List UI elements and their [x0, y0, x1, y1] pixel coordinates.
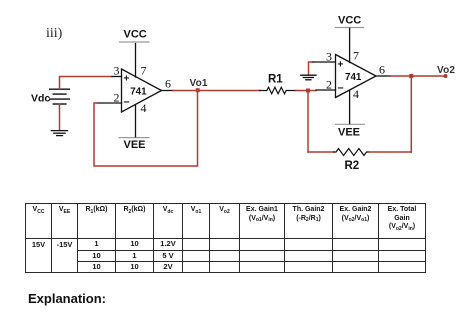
svg-text:741: 741 [345, 72, 362, 83]
junction node Vo2/R2 [409, 74, 413, 78]
svg-text:–: – [124, 96, 130, 108]
battery Vdc [50, 89, 70, 104]
svg-text:iii): iii) [46, 26, 63, 41]
wire R2 right lead [370, 151, 412, 153]
ground GND1 [51, 131, 67, 136]
wire output U2 to Vo2 [390, 75, 446, 77]
svg-text:3: 3 [326, 50, 332, 64]
svg-text:VEE: VEE [338, 127, 360, 139]
svg-text:Vo1: Vo1 [190, 78, 208, 89]
svg-text:VCC: VCC [338, 14, 361, 26]
junction node Vo1 [196, 88, 200, 92]
svg-text:2: 2 [326, 77, 332, 91]
wire battery- to ground [59, 104, 61, 130]
svg-text:741: 741 [130, 87, 147, 98]
svg-text:Vo2: Vo2 [437, 65, 455, 76]
op-amp U2 741 [313, 28, 390, 123]
pin 4 stem (VEE) [135, 105, 137, 137]
ground GND2 [301, 75, 316, 80]
junction node pin2 U2 [306, 89, 310, 93]
wire R1 to pin2 U2 [296, 90, 316, 92]
wire R2 left lead [308, 151, 334, 153]
pin 7 stem (VCC) [349, 28, 351, 62]
wire R2 up to output node [410, 76, 412, 152]
power VEE (U1) [119, 138, 149, 151]
wire pin3 U2 to ground [309, 62, 314, 75]
pin 3 stub [112, 76, 122, 78]
pin 6 output stub [376, 75, 390, 77]
svg-text:R1: R1 [268, 74, 283, 86]
svg-text:–: – [338, 82, 344, 94]
pin 7 stem (VCC) [135, 44, 137, 78]
svg-text:6: 6 [379, 63, 385, 77]
table of measurements [25, 203, 426, 273]
op-amp U1 741 [97, 44, 174, 137]
terminal dot Vo2 [444, 74, 448, 78]
svg-text:4: 4 [353, 87, 359, 101]
svg-text:+: + [124, 74, 130, 85]
svg-text:VCC: VCC [124, 29, 147, 41]
wire feedback U1 pin2 [94, 91, 198, 166]
pin 4 stem (VEE) [349, 90, 351, 124]
svg-text:R2: R2 [345, 160, 360, 172]
svg-text:3: 3 [114, 64, 120, 78]
svg-text:7: 7 [141, 64, 147, 78]
power VEE (U2) [336, 124, 365, 138]
pin 3 stub [313, 61, 336, 63]
pin 6 output stub [162, 90, 174, 92]
svg-text:+: + [338, 60, 344, 71]
wire pin2 U2 down to R2 [307, 91, 309, 153]
wire output Vo1 to R1 [173, 90, 260, 92]
power VCC (U1) [120, 29, 150, 43]
svg-text:VEE: VEE [124, 139, 146, 151]
pin 2 stub [316, 89, 336, 91]
svg-text:2: 2 [114, 90, 120, 104]
power VCC (U2) [336, 14, 364, 27]
svg-text:7: 7 [353, 49, 359, 63]
svg-text:4: 4 [141, 101, 147, 115]
svg-text:6: 6 [165, 77, 171, 91]
pin 2 stub [97, 102, 122, 104]
svg-text:Vdc: Vdc [31, 93, 50, 105]
wire battery+ to pin3 U1 [60, 77, 113, 90]
resistor R1 [260, 87, 297, 94]
resistor R2 [334, 149, 370, 156]
